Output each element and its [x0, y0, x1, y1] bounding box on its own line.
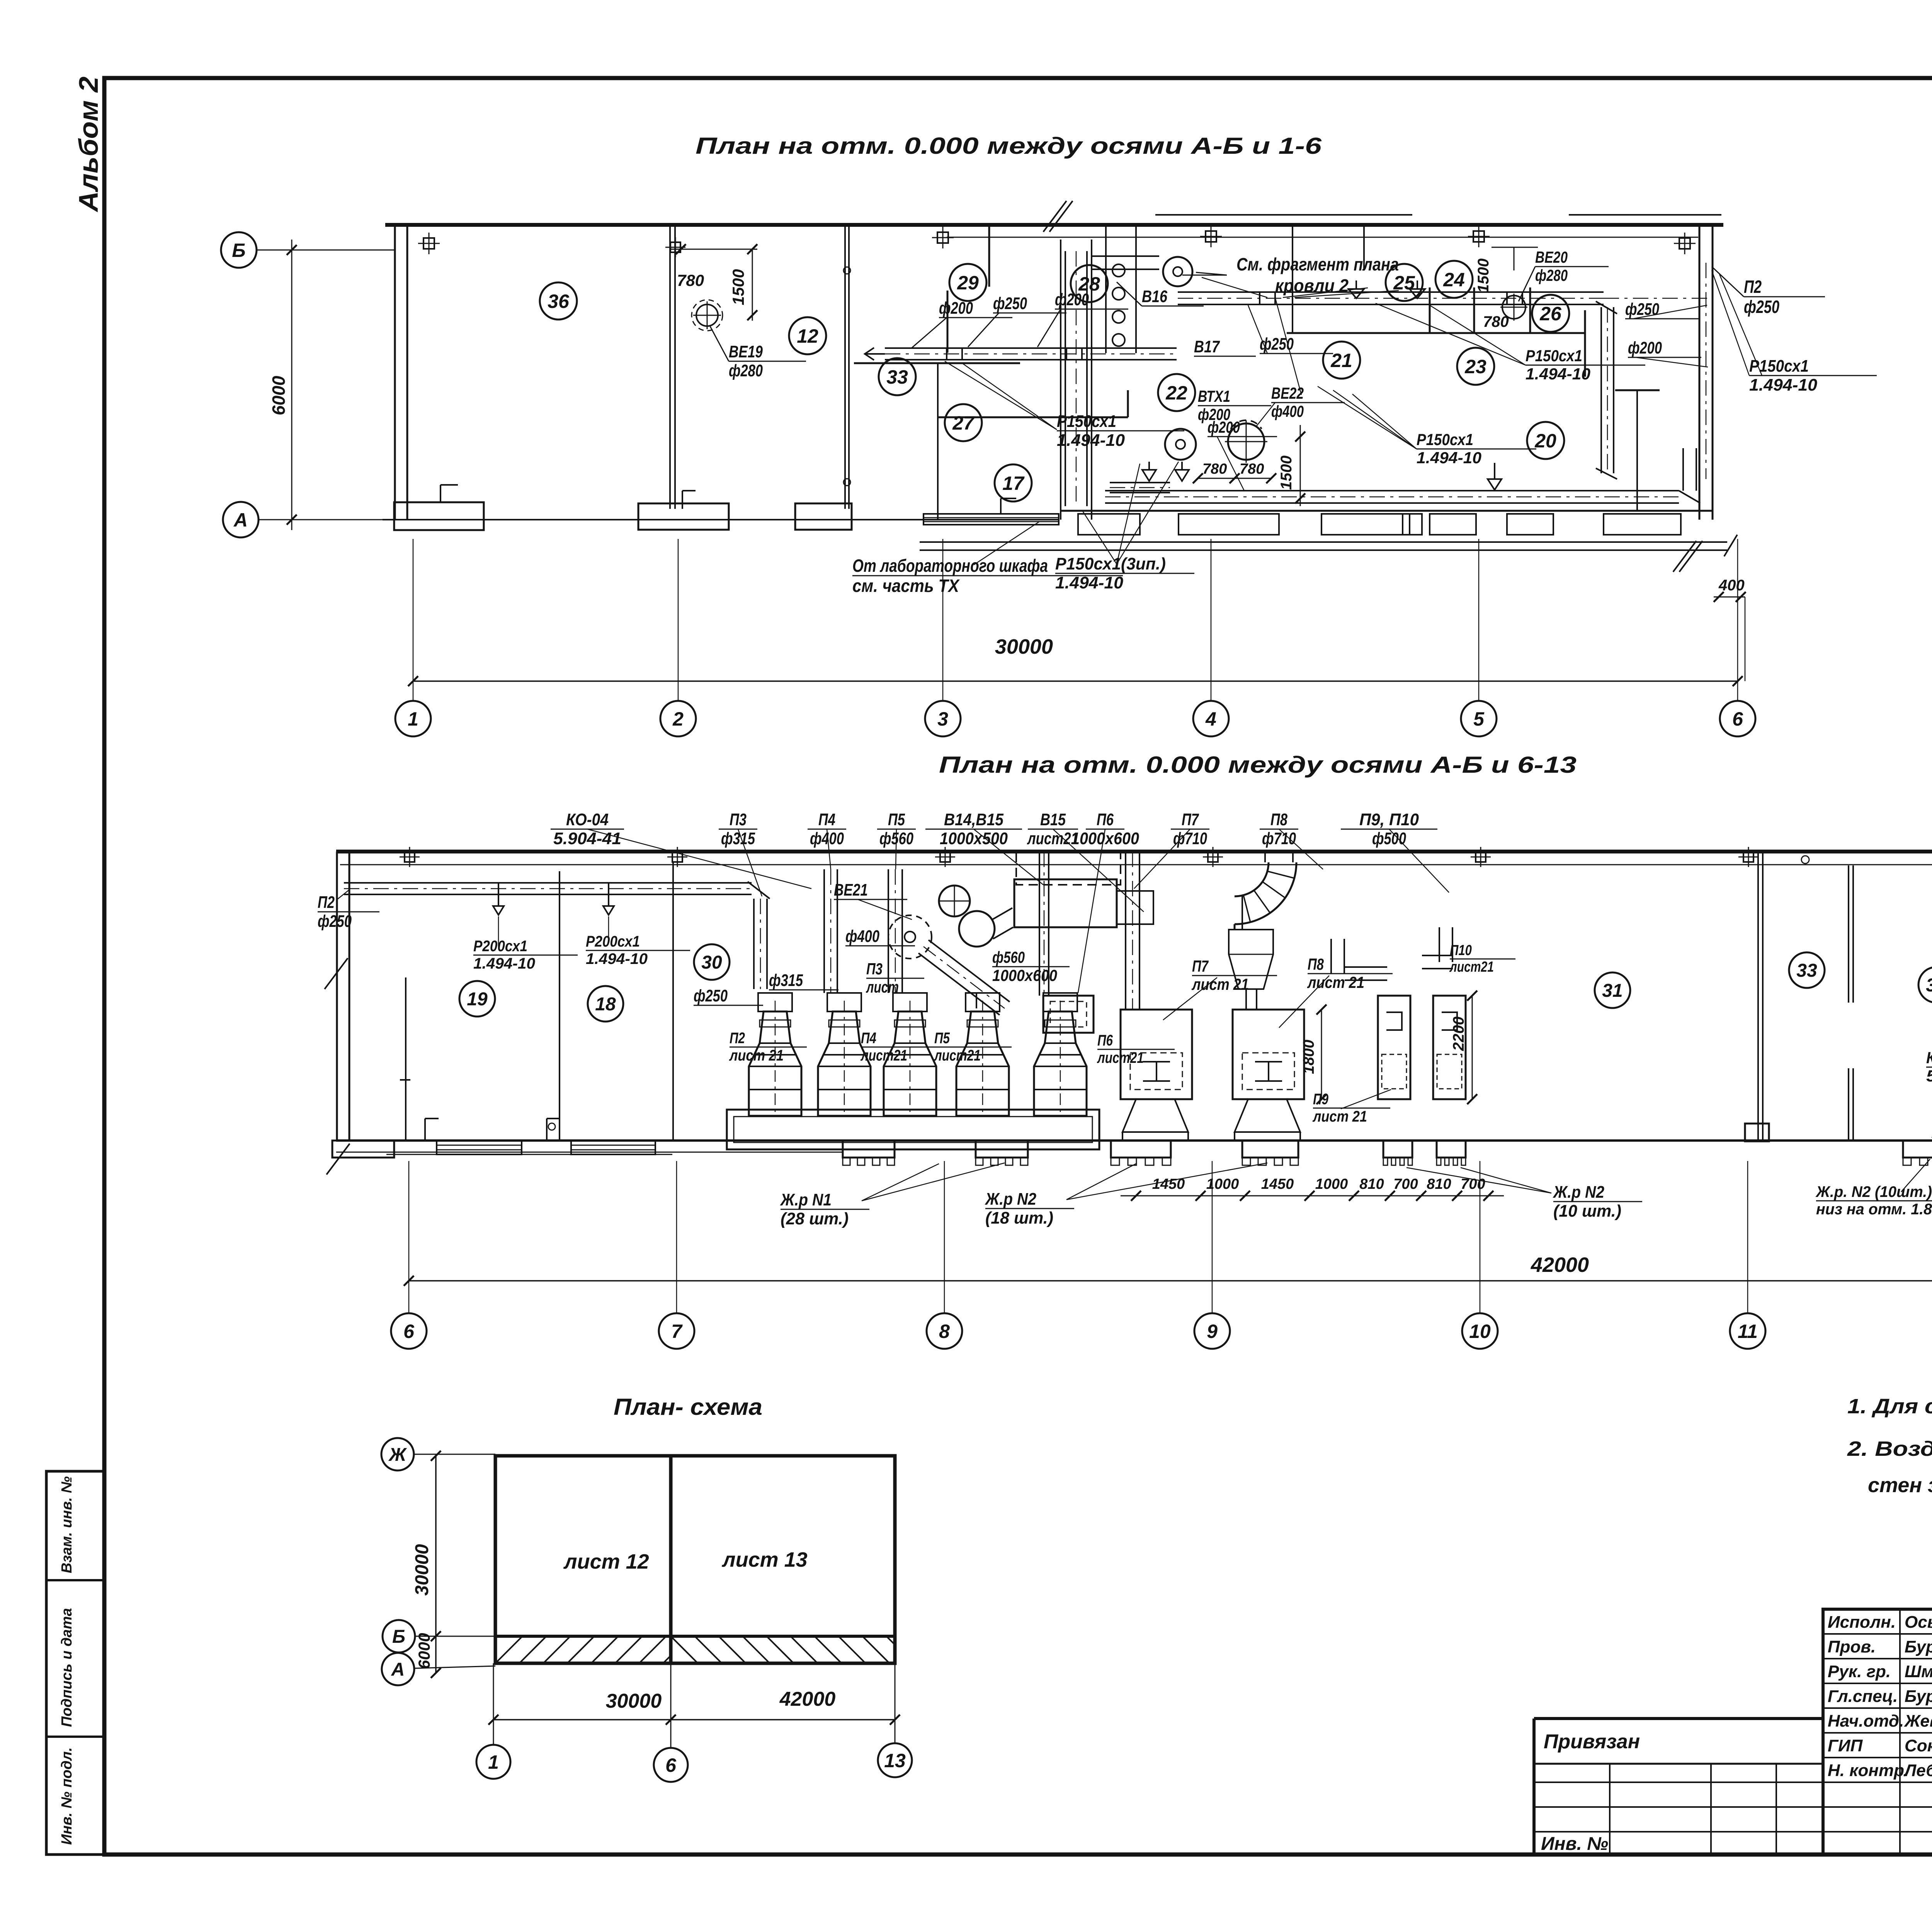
svg-text:ф200: ф200 — [939, 299, 973, 318]
svg-text:31: 31 — [1602, 981, 1622, 1001]
svg-text:1450: 1450 — [1261, 1176, 1294, 1192]
svg-text:кровли 2: кровли 2 — [1275, 275, 1349, 296]
svg-text:П3: П3 — [730, 810, 747, 829]
svg-text:5.903-7, 6.1: 5.903-7, 6.1 — [1926, 1067, 1932, 1085]
svg-text:30000: 30000 — [606, 1690, 662, 1712]
svg-text:ф250: ф250 — [1260, 335, 1294, 354]
svg-text:лист21: лист21 — [860, 1047, 907, 1064]
svg-text:780: 780 — [1240, 461, 1264, 477]
svg-text:19: 19 — [467, 989, 488, 1010]
svg-text:Подпись и дата: Подпись и дата — [59, 1608, 75, 1727]
svg-text:лист21: лист21 — [934, 1047, 981, 1064]
svg-text:Р200сх1: Р200сх1 — [586, 933, 640, 950]
svg-text:В14,В15: В14,В15 — [944, 810, 1003, 829]
svg-text:П9: П9 — [1313, 1091, 1329, 1108]
svg-text:лист 12: лист 12 — [563, 1550, 649, 1573]
svg-text:5.904-41: 5.904-41 — [553, 829, 621, 848]
svg-text:8: 8 — [939, 1321, 950, 1342]
svg-text:1800: 1800 — [1300, 1040, 1317, 1074]
svg-text:П8: П8 — [1308, 955, 1324, 973]
svg-text:1.494-10: 1.494-10 — [586, 950, 648, 967]
svg-text:ф315: ф315 — [769, 971, 803, 990]
svg-text:ф280: ф280 — [729, 361, 763, 380]
svg-text:1.494-10: 1.494-10 — [1057, 431, 1125, 450]
svg-text:Р150сх1: Р150сх1 — [1526, 347, 1582, 365]
svg-text:18: 18 — [595, 994, 616, 1015]
svg-text:ф560: ф560 — [992, 948, 1025, 966]
svg-text:Жевнеров: Жевнеров — [1904, 1712, 1932, 1731]
svg-text:ВТХ1: ВТХ1 — [1198, 387, 1230, 405]
svg-text:1500: 1500 — [1475, 258, 1492, 293]
svg-text:Бурцев: Бурцев — [1905, 1637, 1932, 1656]
svg-text:21: 21 — [1330, 350, 1352, 371]
svg-text:1000: 1000 — [1315, 1176, 1348, 1192]
svg-text:П4: П4 — [861, 1030, 876, 1047]
svg-text:4: 4 — [1205, 708, 1216, 730]
svg-text:Гл.спец.: Гл.спец. — [1828, 1687, 1898, 1706]
svg-text:1. Для систем В16, В17 вид сбо: 1. Для систем В16, В17 вид сбоку аналоги… — [1847, 1395, 1932, 1418]
svg-text:2: 2 — [672, 708, 684, 730]
svg-text:П2: П2 — [1744, 277, 1762, 297]
svg-text:400: 400 — [1718, 577, 1745, 594]
svg-text:лист21: лист21 — [1097, 1049, 1144, 1066]
svg-text:33: 33 — [1796, 960, 1817, 981]
svg-text:32: 32 — [1926, 975, 1932, 996]
svg-text:ф250: ф250 — [694, 986, 728, 1005]
svg-text:2. Воздуховоды, не привязанные: 2. Воздуховоды, не привязанные на плане,… — [1847, 1437, 1932, 1460]
svg-text:П5: П5 — [888, 810, 905, 829]
svg-text:ф250: ф250 — [1625, 300, 1659, 319]
svg-text:ВЕ19: ВЕ19 — [729, 342, 763, 361]
svg-text:В17: В17 — [1194, 337, 1220, 356]
svg-text:23: 23 — [1464, 356, 1486, 377]
svg-text:42000: 42000 — [779, 1688, 836, 1710]
svg-text:Инв. №: Инв. № — [1541, 1834, 1608, 1854]
svg-text:6: 6 — [1732, 708, 1743, 730]
svg-text:См. фрагмент плана: См. фрагмент плана — [1236, 254, 1399, 274]
svg-text:Ж.р N1: Ж.р N1 — [780, 1190, 832, 1209]
svg-text:12: 12 — [797, 325, 818, 347]
svg-text:П9, П10: П9, П10 — [1359, 810, 1419, 829]
svg-text:П5: П5 — [934, 1030, 950, 1047]
svg-text:ф200: ф200 — [1207, 418, 1240, 436]
svg-text:6: 6 — [403, 1321, 415, 1342]
svg-text:ф250: ф250 — [1744, 297, 1779, 317]
svg-text:810: 810 — [1359, 1176, 1384, 1192]
svg-text:1500: 1500 — [729, 269, 747, 305]
svg-text:7: 7 — [671, 1321, 683, 1342]
svg-text:20: 20 — [1534, 430, 1556, 452]
svg-text:см. часть ТХ: см. часть ТХ — [852, 576, 960, 596]
svg-text:В15: В15 — [1040, 810, 1066, 829]
svg-text:24: 24 — [1443, 269, 1465, 291]
svg-text:10: 10 — [1469, 1321, 1491, 1342]
svg-text:Бурцев: Бурцев — [1905, 1687, 1932, 1706]
svg-text:1.494-10: 1.494-10 — [1417, 449, 1481, 467]
svg-text:11: 11 — [1738, 1321, 1758, 1342]
svg-text:1000х600: 1000х600 — [1071, 829, 1139, 848]
svg-text:ГИП: ГИП — [1828, 1736, 1863, 1755]
svg-text:1000х500: 1000х500 — [940, 829, 1008, 848]
svg-text:780: 780 — [1202, 461, 1227, 477]
svg-text:Рук. гр.: Рук. гр. — [1828, 1662, 1891, 1681]
svg-text:17: 17 — [1002, 473, 1025, 494]
svg-text:780: 780 — [1483, 313, 1509, 330]
svg-text:810: 810 — [1427, 1176, 1451, 1192]
svg-text:А: А — [391, 1659, 405, 1680]
svg-text:ф315: ф315 — [721, 829, 755, 848]
svg-text:1.494-10: 1.494-10 — [473, 955, 535, 972]
svg-text:ВЕ20: ВЕ20 — [1535, 248, 1568, 266]
svg-text:3: 3 — [937, 708, 948, 730]
svg-text:лист 21: лист 21 — [1312, 1108, 1367, 1125]
svg-text:42000: 42000 — [1531, 1253, 1589, 1277]
svg-text:2200: 2200 — [1450, 1017, 1467, 1051]
svg-text:780: 780 — [677, 271, 704, 289]
svg-text:Н. контр.: Н. контр. — [1828, 1761, 1909, 1780]
svg-text:КО-04: КО-04 — [566, 810, 609, 829]
svg-text:Взам. инв. №: Взам. инв. № — [59, 1476, 75, 1573]
svg-text:ВЕ21: ВЕ21 — [834, 881, 868, 899]
svg-text:Соколовский: Соколовский — [1905, 1736, 1932, 1755]
svg-text:26: 26 — [1539, 303, 1562, 325]
svg-text:В16: В16 — [1142, 287, 1167, 306]
svg-text:П7: П7 — [1192, 957, 1209, 975]
svg-text:(10 шт.): (10 шт.) — [1553, 1202, 1621, 1221]
svg-text:П4: П4 — [818, 810, 835, 829]
svg-text:лист 13: лист 13 — [721, 1548, 808, 1571]
svg-text:лист: лист — [866, 978, 899, 996]
svg-text:Ж.р N2: Ж.р N2 — [1553, 1183, 1604, 1202]
svg-text:ф400: ф400 — [845, 927, 879, 946]
svg-text:1: 1 — [488, 1751, 499, 1773]
svg-text:6: 6 — [665, 1754, 677, 1776]
svg-text:1000: 1000 — [1206, 1176, 1239, 1192]
svg-text:13: 13 — [884, 1750, 906, 1771]
svg-text:стен здания.: стен здания. — [1868, 1474, 1932, 1497]
svg-text:П6: П6 — [1097, 1032, 1113, 1049]
svg-text:ф500: ф500 — [1372, 829, 1406, 848]
svg-text:Р150сх1: Р150сх1 — [1057, 412, 1116, 431]
svg-text:700: 700 — [1393, 1176, 1418, 1192]
svg-text:Нач.отд.: Нач.отд. — [1828, 1712, 1904, 1731]
svg-text:ф200: ф200 — [1055, 290, 1089, 309]
svg-text:низ на отм. 1.8: низ на отм. 1.8 — [1816, 1201, 1932, 1218]
svg-text:План на отм. 0.000 между осями: План на отм. 0.000 между осями А-Б и 1-6 — [696, 133, 1322, 159]
svg-text:Исполн.: Исполн. — [1828, 1613, 1896, 1632]
svg-text:План на отм. 0.000 между осями: План на отм. 0.000 между осями А-Б и 6-1… — [939, 752, 1577, 778]
svg-text:Привязан: Привязан — [1544, 1731, 1640, 1753]
svg-text:1.494-10: 1.494-10 — [1526, 365, 1590, 383]
svg-text:1000х600: 1000х600 — [992, 966, 1057, 984]
svg-text:П8: П8 — [1270, 810, 1287, 829]
svg-text:5: 5 — [1473, 708, 1485, 730]
svg-text:Р200сх1: Р200сх1 — [473, 938, 527, 955]
svg-text:6000: 6000 — [269, 376, 289, 415]
svg-text:А: А — [233, 509, 248, 531]
svg-text:ф280: ф280 — [1535, 266, 1568, 284]
svg-text:1.494-10: 1.494-10 — [1749, 376, 1818, 394]
svg-text:КУС2.00.00-М: КУС2.00.00-М — [1926, 1049, 1932, 1067]
svg-text:Б: Б — [232, 240, 245, 261]
svg-text:(18 шт.): (18 шт.) — [985, 1209, 1053, 1227]
svg-text:ф200: ф200 — [1628, 338, 1662, 357]
svg-text:700: 700 — [1461, 1176, 1485, 1192]
svg-text:План- схема: План- схема — [614, 1394, 762, 1420]
svg-text:29: 29 — [957, 272, 979, 294]
svg-text:Б: Б — [392, 1627, 405, 1647]
svg-text:Лебская: Лебская — [1903, 1761, 1932, 1780]
svg-text:лист 21: лист 21 — [1307, 973, 1364, 991]
svg-text:П2: П2 — [318, 893, 335, 912]
svg-text:Пров.: Пров. — [1828, 1637, 1876, 1656]
svg-text:ф250: ф250 — [993, 294, 1027, 313]
svg-text:П7: П7 — [1182, 810, 1199, 829]
svg-text:Инв. № подл.: Инв. № подл. — [59, 1747, 75, 1845]
svg-text:Р150сх1: Р150сх1 — [1417, 430, 1473, 449]
svg-text:Шматкова: Шматкова — [1905, 1662, 1932, 1681]
svg-text:лист21: лист21 — [1449, 959, 1494, 975]
svg-text:1.494-10: 1.494-10 — [1055, 573, 1124, 592]
svg-text:П3: П3 — [866, 960, 883, 978]
svg-text:6000: 6000 — [415, 1633, 433, 1669]
svg-text:ф710: ф710 — [1262, 829, 1296, 848]
svg-text:П10: П10 — [1450, 942, 1472, 959]
svg-text:1500: 1500 — [1278, 456, 1295, 490]
svg-text:33: 33 — [886, 366, 908, 388]
svg-text:Р150сх1(3ип.): Р150сх1(3ип.) — [1055, 554, 1166, 573]
svg-text:ф400: ф400 — [1271, 402, 1304, 420]
svg-text:30: 30 — [701, 952, 722, 973]
svg-text:П6: П6 — [1097, 810, 1114, 829]
svg-text:лист 21: лист 21 — [729, 1047, 784, 1064]
svg-text:ф250: ф250 — [318, 912, 352, 931]
svg-text:(28 шт.): (28 шт.) — [781, 1209, 849, 1228]
svg-text:ф710: ф710 — [1173, 829, 1207, 848]
svg-text:1: 1 — [408, 708, 418, 730]
svg-text:30000: 30000 — [412, 1544, 432, 1596]
svg-text:Ж.р N2: Ж.р N2 — [985, 1190, 1036, 1209]
svg-text:ВЕ22: ВЕ22 — [1271, 384, 1304, 402]
svg-text:Ж: Ж — [388, 1445, 407, 1465]
svg-text:27: 27 — [952, 412, 975, 434]
svg-text:30000: 30000 — [995, 635, 1053, 658]
svg-text:От лабораторного шкафа: От лабораторного шкафа — [852, 556, 1048, 576]
svg-text:Альбом 2: Альбом 2 — [73, 76, 104, 212]
svg-text:Ж.р. N2 (10шт.): Ж.р. N2 (10шт.) — [1815, 1183, 1932, 1200]
svg-text:9: 9 — [1207, 1321, 1218, 1342]
svg-text:36: 36 — [548, 291, 570, 312]
svg-text:П2: П2 — [730, 1030, 745, 1047]
svg-text:Оськина: Оськина — [1905, 1613, 1932, 1632]
svg-text:22: 22 — [1165, 382, 1187, 404]
